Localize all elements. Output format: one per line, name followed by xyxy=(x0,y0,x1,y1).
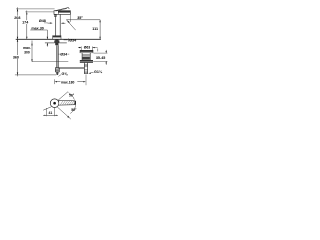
mounting nut xyxy=(54,40,59,43)
upper angle arc xyxy=(69,93,75,100)
aerator xyxy=(54,14,56,16)
faucet spout xyxy=(54,11,70,15)
supply hoses xyxy=(55,45,57,67)
svg-text:35-45: 35-45 xyxy=(96,56,105,60)
svg-text:max.30: max.30 xyxy=(31,26,44,30)
svg-text:50°: 50° xyxy=(69,93,75,97)
svg-text:Ø34: Ø34 xyxy=(69,38,77,42)
label Ø34 shank xyxy=(58,53,60,55)
handle rotated down line xyxy=(57,107,69,118)
svg-text:Ø48: Ø48 xyxy=(39,19,46,23)
svg-text:35°: 35° xyxy=(77,16,83,20)
label 208 xyxy=(14,16,22,20)
handle top view: body circle xyxy=(50,99,59,108)
extension line lever height xyxy=(16,8,55,10)
svg-text:G⅜: G⅜ xyxy=(62,72,69,76)
pop-up rod xyxy=(58,67,84,69)
svg-text:max.: max. xyxy=(23,46,31,50)
hose end extension line xyxy=(32,61,68,63)
faucet body column xyxy=(55,14,57,35)
lever handle xyxy=(54,8,69,11)
waste locknut xyxy=(80,60,93,61)
hose fitting xyxy=(55,68,59,72)
dimension Ø34 hole at counter xyxy=(64,39,68,41)
waste tail pipe threaded xyxy=(83,63,85,74)
lever swung line xyxy=(66,20,75,30)
counter bottom line right xyxy=(59,42,67,44)
dimension 111 vertical xyxy=(99,20,101,40)
dimension max.300 vertical xyxy=(31,41,33,62)
extension from spout end xyxy=(69,11,71,20)
bottom extension line 360 end xyxy=(15,74,56,76)
dimension line 174 vertical xyxy=(26,11,28,40)
handle rotated up line xyxy=(58,92,68,101)
svg-text:174: 174 xyxy=(22,21,29,25)
svg-text:41: 41 xyxy=(49,111,53,115)
svg-text:Ø34: Ø34 xyxy=(60,53,68,57)
dimension max.180 xyxy=(53,79,55,84)
short line into circle lower-left xyxy=(43,107,51,110)
waste body clamp zone xyxy=(81,53,83,60)
waste: dimension Ø63 xyxy=(78,47,81,49)
label G 3/8 xyxy=(58,75,61,77)
angle arc 35 xyxy=(69,20,70,23)
dimension 41 xyxy=(45,108,47,116)
label G 1 1/4 xyxy=(88,73,91,74)
label 360 xyxy=(12,55,20,59)
label 174 xyxy=(21,20,29,24)
right arrow tail + tick xyxy=(93,47,98,49)
faucet base xyxy=(53,36,61,40)
dimension line 208/360 vertical xyxy=(17,7,19,76)
counter bottom line left xyxy=(45,42,54,44)
lower angle arc xyxy=(70,107,75,114)
counter top line xyxy=(16,38,101,40)
svg-text:max.180: max.180 xyxy=(61,80,74,84)
svg-text:G1¼: G1¼ xyxy=(94,70,103,74)
svg-text:360: 360 xyxy=(13,55,19,59)
fitting tip xyxy=(56,72,59,74)
waste plug cap xyxy=(80,50,93,53)
svg-text:Ø63: Ø63 xyxy=(84,46,91,50)
extension line spout top xyxy=(25,11,54,13)
handle tip extension xyxy=(74,103,76,107)
svg-text:50°: 50° xyxy=(71,108,77,112)
svg-text:111: 111 xyxy=(92,27,98,31)
35 degree reference line xyxy=(66,19,100,21)
svg-text:300: 300 xyxy=(24,51,30,55)
svg-text:208: 208 xyxy=(14,16,20,20)
label max. 300 xyxy=(23,46,31,54)
handle bar hatched xyxy=(59,100,76,105)
dimension 35-45 xyxy=(94,52,108,54)
shank below counter xyxy=(55,39,58,45)
